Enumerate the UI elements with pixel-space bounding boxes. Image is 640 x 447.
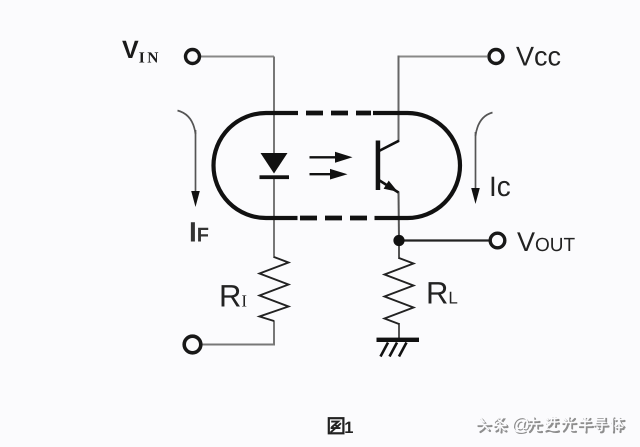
terminal VIN <box>186 50 200 64</box>
wire VIN horizontal <box>200 56 274 58</box>
wire LED anode vertical <box>273 57 275 157</box>
wire RL to ground <box>398 323 400 339</box>
current arrow IF <box>178 111 200 208</box>
ground <box>377 338 420 357</box>
svg-text:Ic: Ic <box>489 171 511 202</box>
optocoupler U1 package top dashed <box>306 111 371 116</box>
label VIN <box>122 36 161 67</box>
watermark 头条 @先进光半导体 <box>477 413 625 436</box>
caption figure 1 digit <box>344 419 353 437</box>
wire LED cathode to RI <box>273 176 275 258</box>
phototransistor Q1 emitter arrowhead <box>384 181 398 192</box>
wire node to VOUT <box>404 239 489 241</box>
terminal VCC <box>489 50 503 64</box>
light arrow 2 <box>310 169 348 180</box>
label RI <box>219 279 247 314</box>
terminal VOUT <box>490 233 505 248</box>
wire node to RL <box>398 241 400 260</box>
resistor RI <box>260 257 289 321</box>
svg-text:1: 1 <box>344 419 353 437</box>
resistor RL <box>385 258 414 324</box>
label IF <box>189 217 209 248</box>
phototransistor Q1 collector lead <box>378 141 399 152</box>
wire emitter to node <box>398 192 401 241</box>
LED D1 anode triangle <box>261 153 288 174</box>
label RL <box>426 276 458 311</box>
phototransistor Q1 emitter lead <box>378 180 399 193</box>
LED D1 cathode bar <box>260 175 290 179</box>
label IC <box>489 171 511 202</box>
caption figure 1 glyph 图 <box>329 418 344 433</box>
optocoupler U1 package right cap <box>373 113 460 218</box>
label VCC <box>516 42 561 72</box>
wire VCC horizontal <box>399 56 488 58</box>
svg-text:@: @ <box>511 413 530 434</box>
optocoupler U1 package bottom dashed <box>300 216 372 221</box>
optocoupler U1 package left cap <box>214 113 298 218</box>
node VOUT junction <box>393 235 404 246</box>
phototransistor Q1 base bar <box>376 141 381 191</box>
svg-text:Vcc: Vcc <box>516 42 561 72</box>
wire RI bottom to return terminal <box>202 321 274 345</box>
wire collector vertical <box>398 56 400 142</box>
light arrow 1 <box>310 152 353 163</box>
terminal input return <box>184 336 201 353</box>
current arrow IC <box>471 113 492 205</box>
label VOUT <box>517 227 576 257</box>
